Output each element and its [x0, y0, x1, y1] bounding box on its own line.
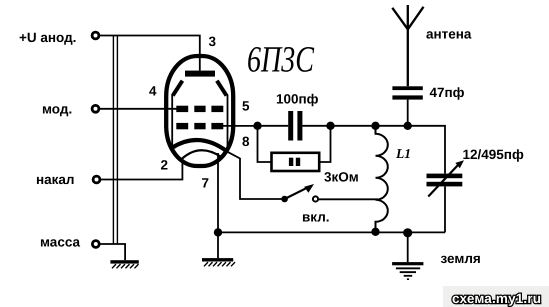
- node B junction dot: [326, 122, 334, 130]
- wire node A to C 100пф: [258, 125, 289, 127]
- anode plate bar: [185, 71, 215, 77]
- capacitor 100пф: [288, 111, 302, 141]
- resistor 3кОм leads: [258, 126, 331, 162]
- node D junction dot (antenna line): [404, 122, 412, 130]
- svg-text:3: 3: [209, 34, 217, 49]
- pin 8 wire to switch: [228, 152, 282, 199]
- svg-text:100пф: 100пф: [276, 92, 319, 107]
- wire node B to top right corner: [331, 126, 446, 174]
- svg-text:масса: масса: [40, 235, 80, 250]
- grid 2 (dashed): [176, 123, 223, 129]
- wire switch to coil tap: [318, 198, 378, 200]
- grid 1 (dashed): [176, 106, 223, 112]
- beam plate right: [217, 81, 227, 96]
- beam plate right rail: [227, 95, 229, 152]
- svg-text:L1: L1: [395, 146, 411, 161]
- wire C 100пф to node B: [302, 125, 330, 127]
- beam plate left rail: [171, 95, 173, 149]
- svg-text:земля: земля: [441, 251, 481, 266]
- node E junction dot (pin7/bus): [214, 228, 222, 236]
- watermark background: [443, 286, 549, 307]
- tube 6П3С envelope: [166, 56, 233, 166]
- variable capacitor 12/495пф: [427, 160, 465, 196]
- switch lever with arrow: [285, 184, 314, 199]
- wire +U анод. to anode lead: [100, 36, 200, 71]
- bottom bus wire: [218, 231, 446, 233]
- node C junction dot (L1 top): [371, 122, 379, 130]
- svg-text:2: 2: [161, 158, 169, 173]
- pin 7 lead to ground: [217, 153, 219, 258]
- svg-text:8: 8: [242, 134, 250, 149]
- svg-text:6П3С: 6П3С: [247, 40, 315, 81]
- switch open contact: [313, 196, 318, 201]
- node A junction dot: [253, 122, 261, 130]
- resistor 3кОм body: [272, 153, 320, 171]
- svg-text:+U анод.: +U анод.: [19, 30, 76, 45]
- wire supply pair line 1: [112, 36, 114, 245]
- terminal масса: [92, 241, 99, 248]
- svg-text:7: 7: [202, 176, 210, 191]
- switch вкл. contact dot: [281, 196, 288, 203]
- svg-text:12/495пф: 12/495пф: [463, 147, 524, 162]
- earth ground symbol: [392, 262, 423, 280]
- beam plate left: [173, 81, 183, 96]
- inductor L1: [376, 126, 388, 232]
- svg-text:5: 5: [242, 98, 250, 113]
- chassis ground (масса): [110, 260, 138, 268]
- chassis ground (pin 7): [202, 258, 235, 266]
- wire мод. to grid 1: [100, 108, 187, 110]
- pin 5 wire (grid2 to node A): [220, 125, 258, 127]
- wire earth drop: [407, 233, 409, 262]
- wire накал to pin 2: [101, 158, 183, 180]
- wire 47пф to node D: [407, 100, 409, 126]
- svg-text:мод.: мод.: [42, 102, 72, 117]
- wire supply pair line 2: [116, 36, 118, 245]
- antenna symbol: [392, 5, 423, 86]
- svg-text:вкл.: вкл.: [302, 210, 330, 225]
- capacitor 47пф: [392, 86, 422, 99]
- wire varcap bottom: [444, 186, 446, 232]
- terminal мод.: [92, 105, 99, 112]
- terminal накал: [93, 176, 100, 183]
- svg-text:схема.my1.ru: схема.my1.ru: [452, 291, 541, 306]
- svg-text:47пф: 47пф: [430, 85, 465, 100]
- svg-text:антена: антена: [426, 27, 472, 42]
- wire масса to chassis ground: [100, 244, 125, 260]
- svg-text:3кОм: 3кОм: [324, 170, 359, 185]
- terminal +U анод.: [92, 32, 99, 39]
- svg-text:4: 4: [149, 84, 157, 99]
- node G junction dot (earth): [403, 228, 412, 237]
- heater arc: [182, 150, 222, 159]
- cathode arc: [172, 140, 228, 152]
- svg-text:накал: накал: [36, 172, 75, 187]
- node F junction dot (L1 bottom): [371, 228, 379, 236]
